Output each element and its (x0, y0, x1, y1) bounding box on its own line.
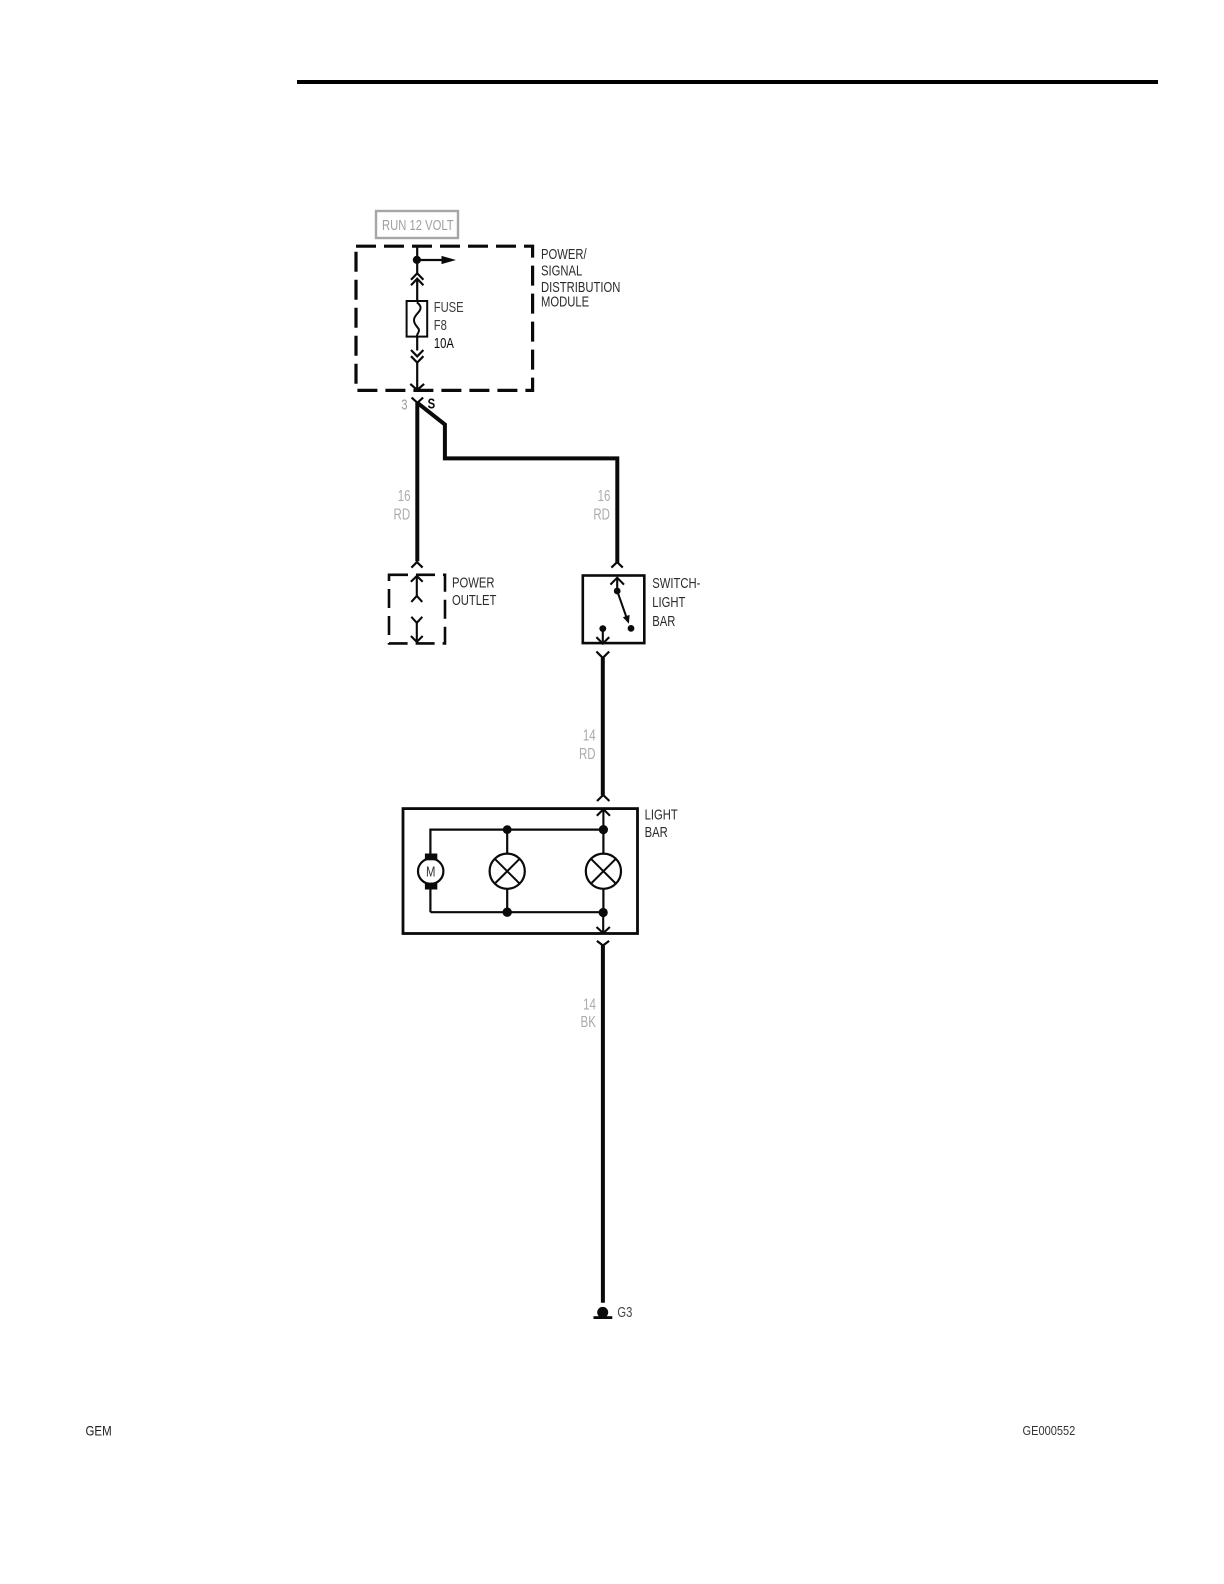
svg-text:POWER/: POWER/ (541, 245, 587, 262)
svg-text:BAR: BAR (652, 612, 675, 629)
svg-text:14: 14 (583, 995, 596, 1013)
svg-text:SWITCH-: SWITCH- (652, 574, 700, 591)
switch-light bar box (583, 576, 645, 644)
svg-text:3: 3 (401, 396, 407, 413)
wire label 14 BK (581, 995, 597, 1031)
wire: switch to light bar 14 RD (601, 658, 605, 795)
svg-text:SIGNAL: SIGNAL (541, 262, 582, 279)
svg-text:LIGHT: LIGHT (652, 593, 685, 610)
terminal chevron above switch (611, 562, 622, 568)
svg-text:RD: RD (579, 744, 596, 762)
junction dot top at lamp 1 (503, 825, 512, 834)
terminal chevron below light bar (597, 941, 609, 946)
svg-text:RD: RD (394, 504, 411, 522)
light bar top bus wire (430, 830, 603, 854)
wire label 14 RD (579, 726, 596, 763)
wire label 16 RD (left) (394, 486, 411, 523)
junction dot top at lamp 2 (599, 825, 608, 834)
power feed tag RUN 12 VOLT (376, 211, 458, 238)
wire: splice to switch (diagonal + horizontal) 16 RD (417, 403, 617, 563)
svg-text:RUN 12 VOLT: RUN 12 VOLT (382, 216, 454, 233)
pin 3 arrow at module boundary (410, 384, 424, 390)
svg-text:M: M (426, 863, 435, 880)
terminal chevron above light bar (597, 795, 609, 801)
fuse label FUSE F8 10A (434, 299, 464, 352)
wire: chevrons to fuse (416, 280, 418, 303)
connector chevrons (double, pointing up) (411, 273, 423, 285)
ground G3 symbol (594, 1307, 613, 1319)
svg-text:G3: G3 (617, 1303, 632, 1320)
fuse F8 (407, 301, 428, 337)
wire label 16 RD (right) (593, 486, 610, 523)
svg-text:POWER: POWER (452, 574, 494, 591)
light bar top pin arrow (597, 809, 610, 829)
wire: feed from RUN 12 VOLT into module (416, 246, 418, 260)
junction dot bottom at lamp 1 (503, 908, 512, 917)
power outlet terminal pins (411, 576, 423, 642)
power outlet label (452, 574, 496, 608)
svg-text:BAR: BAR (645, 823, 668, 840)
svg-text:BK: BK (581, 1012, 597, 1030)
switch internals: pin arrow, contacts and blade (596, 578, 634, 644)
splice S chevron (412, 398, 424, 403)
light bar box (403, 809, 638, 934)
svg-text:FUSE: FUSE (434, 299, 464, 316)
lamp 2 (586, 830, 621, 913)
light bar label (645, 806, 678, 841)
top rule (297, 80, 1158, 84)
wire: splice to power outlet 16 RD (415, 403, 419, 562)
svg-text:16: 16 (598, 486, 611, 504)
terminal chevron above power outlet (411, 562, 422, 568)
wire: node to connector chevrons (416, 260, 418, 274)
switch label SWITCH-LIGHT BAR (652, 574, 700, 629)
svg-text:16: 16 (398, 486, 411, 504)
connector chevrons (double, pointing down) (411, 350, 423, 363)
lamp 1 (490, 830, 525, 913)
power outlet box (dashed) (389, 575, 445, 644)
svg-text:10A: 10A (434, 335, 454, 352)
svg-text:GE000552: GE000552 (1023, 1423, 1076, 1438)
svg-text:OUTLET: OUTLET (452, 591, 496, 608)
svg-text:LIGHT: LIGHT (645, 806, 678, 823)
terminal chevron below switch (596, 652, 609, 658)
light bar bottom bus wire (430, 911, 603, 913)
junction dot bottom at lamp 2 (599, 908, 608, 917)
svg-text:MODULE: MODULE (541, 293, 589, 310)
wire: fuse to lower connector chevrons (416, 337, 418, 351)
module label POWER/ SIGNAL DISTRIBUTION MODULE (541, 245, 620, 310)
wire: chevrons to module pin (416, 363, 418, 390)
module box POWER/SIGNAL DISTRIBUTION MODULE (dashed) (356, 246, 533, 390)
svg-text:RD: RD (593, 504, 610, 522)
wire: light bar to ground 14 BK (601, 946, 605, 1303)
light bar bottom pin arrow (597, 913, 610, 934)
svg-text:14: 14 (583, 726, 596, 744)
wire: branch arrow to other circuits (417, 256, 456, 264)
motor M (418, 854, 443, 913)
svg-text:GEM: GEM (86, 1422, 112, 1438)
svg-text:F8: F8 (434, 317, 447, 334)
node: module internal junction (413, 256, 421, 264)
